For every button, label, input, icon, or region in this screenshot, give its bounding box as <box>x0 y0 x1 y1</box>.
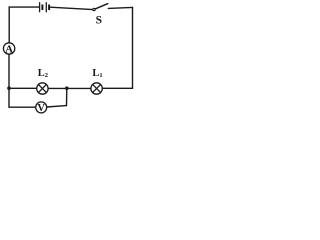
svg-text:A: A <box>5 43 13 55</box>
switch S <box>93 4 108 27</box>
wire switch to top-right corner <box>108 6 132 9</box>
wire lamp row middle segment <box>48 87 91 89</box>
wire bottom-left horizontal <box>9 106 36 108</box>
wire left vertical lower <box>8 54 10 107</box>
wire lamp row right segment <box>102 87 132 89</box>
wire top-left segment <box>9 6 39 8</box>
lamp L1 <box>91 68 103 94</box>
wire right vertical <box>132 7 134 88</box>
voltmeter V <box>36 102 47 114</box>
svg-text:L2: L2 <box>38 68 48 79</box>
svg-text:V: V <box>37 103 45 114</box>
node junction middle <box>65 86 69 90</box>
battery <box>40 2 51 12</box>
wire lamp row left segment <box>9 87 37 89</box>
ammeter A <box>3 43 14 56</box>
lamp L2 <box>37 68 48 94</box>
svg-text:S: S <box>96 14 102 26</box>
wire bottom-right horizontal <box>47 106 67 107</box>
wire battery to switch <box>50 7 93 9</box>
wire voltmeter branch right vertical <box>66 88 68 106</box>
node junction left <box>7 86 11 90</box>
wire left vertical upper <box>8 7 10 43</box>
svg-text:L1: L1 <box>92 68 102 79</box>
